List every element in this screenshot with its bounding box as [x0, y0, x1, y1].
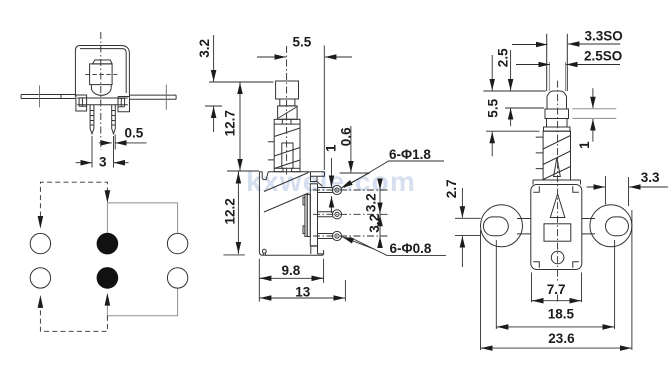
svg-text:2.5SO: 2.5SO	[584, 49, 622, 64]
clamp tab lower	[303, 226, 305, 234]
pin 2	[112, 105, 116, 134]
extension lines 2.5/5.5	[483, 91, 546, 131]
label 6-phi0.8	[350, 237, 447, 255]
spring coils	[274, 128, 300, 169]
switch body outer shell	[75, 46, 129, 97]
svg-text:3.2: 3.2	[197, 39, 212, 58]
terminal 1	[318, 188, 333, 193]
dim 5.5	[257, 56, 286, 58]
pad open bottom-right	[167, 268, 187, 288]
clamp tab upper	[303, 197, 305, 205]
dim 23.6	[481, 210, 632, 350]
base plate	[77, 98, 128, 105]
pad filled top-middle	[97, 233, 119, 255]
dart in body	[554, 158, 561, 177]
corner mark br	[573, 262, 579, 268]
dim 7.7	[532, 273, 582, 303]
dim 5.5 front	[491, 55, 493, 90]
centerline vertical	[100, 32, 102, 150]
top-right tab detail	[311, 172, 325, 187]
plunger stem inside spring	[282, 143, 293, 168]
right arm centerline cross	[165, 85, 167, 110]
dim 12.7/12.2 shared extension	[227, 170, 259, 172]
svg-text:3.2: 3.2	[363, 193, 378, 212]
dim 12.7	[239, 82, 241, 171]
right ear neck	[582, 219, 595, 234]
body interior spring lines	[264, 173, 309, 213]
terminal clamp strip	[305, 194, 307, 236]
left base bracket	[76, 95, 87, 111]
corner mark tr	[573, 186, 579, 192]
spring seat block	[274, 168, 283, 171]
extension lines dim 1	[572, 109, 616, 119]
centerline plunger	[286, 46, 288, 176]
wire solid top	[107, 203, 177, 233]
front view	[444, 29, 668, 351]
plunger neck	[280, 99, 295, 106]
spring wire ticks	[268, 142, 274, 160]
button dashed midline	[85, 73, 117, 75]
svg-text:2.5: 2.5	[496, 48, 511, 67]
dim 2.5	[510, 50, 512, 90]
left ear slot	[483, 217, 508, 236]
dim 3.3	[606, 176, 629, 206]
right ear lobe	[590, 205, 632, 247]
terminal 1 centerline	[313, 189, 388, 191]
contact schematic	[30, 182, 188, 331]
dim 13	[344, 280, 346, 301]
left ear neck	[517, 219, 531, 234]
arrow down at middle top	[105, 190, 111, 203]
body front	[543, 131, 570, 180]
arrow up at middle bottom	[105, 293, 111, 306]
terminal 2 centerline	[313, 213, 388, 215]
button dome	[91, 85, 111, 96]
svg-text:12.2: 12.2	[223, 198, 238, 224]
spring ticks front	[536, 137, 543, 169]
terminal support block	[310, 184, 317, 246]
svg-text:13: 13	[295, 285, 311, 300]
right ear slot	[606, 217, 629, 236]
arrow up at left bottom	[38, 295, 44, 308]
switch body inner edge	[80, 49, 126, 93]
dim 3.2 pitch upper	[379, 190, 381, 236]
dimension 3	[76, 162, 92, 164]
shaft outer lines	[547, 34, 568, 91]
right bracket arm	[130, 95, 176, 99]
base block	[531, 185, 582, 270]
extension line pin right edge	[114, 135, 116, 150]
spring sides	[274, 124, 300, 168]
right base bracket	[118, 97, 130, 112]
pin 1	[90, 105, 94, 134]
pad open bottom-left	[30, 268, 50, 288]
dimension 0.5	[99, 142, 112, 144]
dim 12.2 bottom extension	[223, 254, 244, 256]
wire solid bottom	[107, 288, 177, 316]
svg-text:18.5: 18.5	[548, 307, 575, 322]
pad open top-right	[167, 233, 187, 253]
plunger flange	[274, 119, 300, 124]
wire dashed bottom	[40, 308, 107, 332]
foot hole	[262, 249, 266, 253]
terminal 3 centerline	[313, 235, 388, 237]
plunger upper body	[278, 106, 298, 119]
bottom hole	[551, 251, 564, 264]
svg-text:5.5: 5.5	[486, 98, 501, 117]
dim 18.5	[496, 240, 614, 329]
label 2.5SO	[516, 64, 550, 66]
label 3.3SO	[512, 44, 547, 46]
left bracket arm	[21, 95, 76, 99]
svg-text:0.6: 0.6	[338, 127, 353, 146]
flange	[544, 127, 571, 131]
dim 1 terminal thickness	[331, 158, 333, 187]
left ear lobe	[481, 205, 523, 247]
svg-text:23.6: 23.6	[548, 331, 575, 346]
svg-text:0.5: 0.5	[125, 125, 144, 140]
extension lines 2.7	[455, 218, 481, 235]
dim 2.7	[461, 188, 463, 218]
dim 3.2 travel	[213, 35, 215, 82]
oblique view of switch	[21, 32, 176, 169]
svg-text:5.5: 5.5	[293, 35, 312, 50]
svg-text:3: 3	[99, 154, 107, 169]
label 6-phi1.8	[344, 161, 444, 188]
plunger cap	[276, 81, 299, 99]
triangle marker	[550, 194, 565, 218]
cap collar	[545, 109, 569, 119]
side view	[197, 35, 446, 302]
svg-text:12.7: 12.7	[223, 110, 238, 136]
svg-text:3.2: 3.2	[367, 214, 382, 233]
spring coils front	[543, 136, 570, 180]
dim 3.2 travel: extension lines	[205, 82, 274, 106]
svg-text:6-Φ1.8: 6-Φ1.8	[389, 147, 431, 162]
pad open top-left	[30, 233, 50, 253]
svg-text:3.3SO: 3.3SO	[585, 29, 623, 44]
svg-text:7.7: 7.7	[547, 282, 566, 297]
terminal 2	[318, 212, 333, 217]
cap lower step	[547, 119, 568, 128]
dim 0.6	[350, 126, 352, 172]
shaft inner lines	[549, 62, 565, 91]
arrow down at left top	[38, 216, 44, 229]
terminal 3	[318, 234, 333, 239]
svg-text:6-Φ0.8: 6-Φ0.8	[390, 241, 432, 256]
corner mark bl	[533, 262, 539, 268]
extension lines for dim 3	[92, 136, 114, 168]
centerline front view	[557, 81, 559, 302]
body outline	[259, 172, 324, 256]
window rect	[544, 224, 571, 241]
dim 9.8	[259, 259, 323, 302]
left arm centerline cross	[39, 85, 41, 107]
cap dome	[547, 91, 567, 109]
dim 3.2 pitch lower	[379, 237, 381, 244]
svg-text:1: 1	[577, 141, 592, 149]
svg-text:1: 1	[324, 144, 339, 152]
button cylinder	[90, 64, 113, 85]
svg-text:2.7: 2.7	[444, 179, 459, 198]
wire dashed top	[40, 182, 107, 216]
dim 1 front	[592, 88, 594, 108]
svg-text:3.3: 3.3	[641, 170, 660, 185]
button cap	[93, 60, 113, 64]
base shoulder	[533, 180, 581, 185]
hatch upper body	[279, 107, 297, 118]
svg-text:9.8: 9.8	[282, 263, 301, 278]
corner mark tl	[533, 186, 539, 192]
pad filled bottom-middle	[97, 267, 119, 289]
dim 12.2	[237, 172, 239, 255]
body bottom and feet	[263, 246, 324, 255]
